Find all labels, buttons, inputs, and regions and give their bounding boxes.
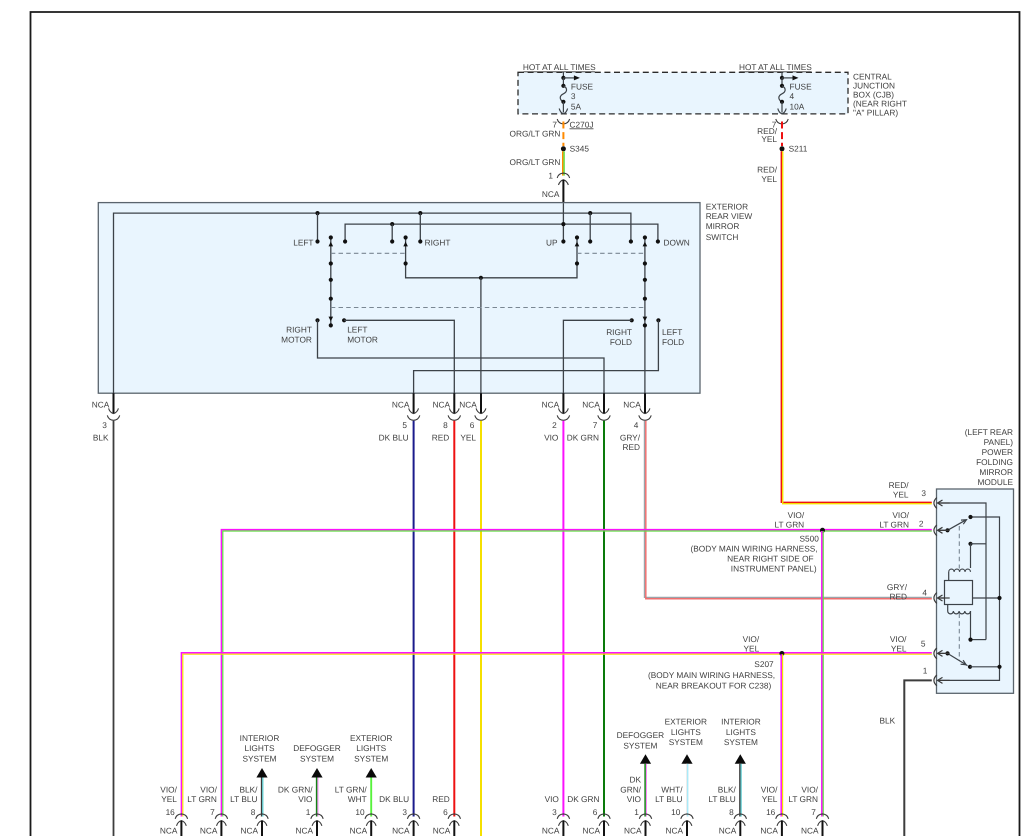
svg-text:VIO/: VIO/	[743, 634, 760, 644]
svg-text:NCA: NCA	[623, 399, 641, 409]
wire DK BLU	[413, 421, 415, 817]
module pin 3	[889, 480, 950, 509]
svg-text:VIO/: VIO/	[890, 634, 907, 644]
node RIGHT MOTOR contact + wire to pin 7	[315, 318, 604, 393]
svg-text:LT BLU: LT BLU	[708, 794, 735, 804]
svg-text:NCA: NCA	[433, 826, 451, 836]
svg-text:16: 16	[766, 807, 776, 817]
bottom connector pin 16 (VIO/ YEL)	[160, 784, 188, 836]
svg-text:FOLD: FOLD	[662, 337, 684, 347]
bottom connector pin 6 (DK GRN)	[567, 794, 610, 836]
svg-text:INTERIOR: INTERIOR	[240, 733, 280, 743]
switch connector pin 1	[548, 170, 569, 185]
svg-text:MOTOR: MOTOR	[347, 334, 378, 344]
svg-text:RIGHT: RIGHT	[286, 324, 312, 334]
svg-text:NCA: NCA	[295, 826, 313, 836]
wire BLK (module pin 1 to bottom)	[880, 680, 932, 836]
wire power feed from pin 1	[561, 203, 565, 243]
svg-text:5: 5	[402, 420, 407, 430]
svg-text:(LEFT REAR: (LEFT REAR	[965, 427, 1013, 437]
off-page INTERIOR LIGHTS SYSTEM (right) / wire BLK/LT BLU	[721, 717, 761, 817]
wire stub to LEFT contact	[315, 213, 319, 243]
svg-text:DK BLU: DK BLU	[379, 432, 409, 442]
wire module pin 3 to windings	[940, 503, 986, 640]
svg-text:DK BLU: DK BLU	[379, 794, 409, 804]
svg-text:LT BLU: LT BLU	[655, 794, 682, 804]
mechanical link UP-DOWN (dashed)	[577, 252, 645, 254]
svg-text:SYSTEM: SYSTEM	[623, 741, 657, 751]
svg-text:NCA: NCA	[459, 399, 477, 409]
wire GRY/RED (switch pin 4 to module pin 4)	[644, 421, 931, 599]
svg-text:FUSE: FUSE	[571, 82, 594, 92]
wire ORG/LT GRN (fuse 3 to S345)	[562, 122, 564, 147]
svg-text:SYSTEM: SYSTEM	[354, 753, 388, 763]
wire pin 5 stub	[938, 652, 948, 654]
svg-text:RIGHT: RIGHT	[606, 327, 632, 337]
svg-text:BLK/: BLK/	[718, 784, 737, 794]
bottom connector pin 10 (LT GRN/ WHT)	[335, 784, 378, 836]
motor coil lower	[948, 605, 986, 642]
svg-text:BLK: BLK	[93, 432, 109, 442]
svg-text:8: 8	[251, 807, 256, 817]
node LEFT MOTOR contact + wire to pin 8	[342, 318, 454, 393]
svg-text:(BODY MAIN WIRING HARNESS,: (BODY MAIN WIRING HARNESS,	[648, 670, 775, 680]
svg-text:VIO: VIO	[627, 794, 642, 804]
wire RED/YEL (S211 to module pin 3)	[781, 151, 932, 503]
wire NCA into switch	[542, 180, 564, 203]
switch pin 3 connector (BLK)	[92, 393, 120, 442]
svg-text:REAR VIEW: REAR VIEW	[706, 211, 753, 221]
svg-text:LT GRN: LT GRN	[775, 520, 805, 530]
switch fold (bottom)	[945, 651, 1001, 669]
svg-text:LIGHTS: LIGHTS	[671, 727, 701, 737]
wire pole output to pin 6	[480, 278, 482, 393]
svg-text:5: 5	[921, 639, 926, 649]
bottom connector pin 1 (DK GRN/ VIO)	[278, 784, 323, 836]
svg-text:MODULE: MODULE	[978, 477, 1014, 487]
svg-text:FOLD: FOLD	[610, 337, 632, 347]
off-page EXTERIOR LIGHTS SYSTEM (right) / wire WHT/LT BLU	[665, 717, 707, 817]
svg-text:C270J: C270J	[570, 119, 594, 129]
svg-text:1: 1	[548, 170, 553, 180]
svg-text:NCA: NCA	[542, 189, 560, 199]
wire DK GRN	[603, 421, 605, 817]
svg-text:RED: RED	[889, 592, 907, 602]
svg-text:HOT AT ALL TIMES: HOT AT ALL TIMES	[739, 62, 812, 72]
switch pole RIGHT (up-position pole)	[403, 235, 579, 280]
svg-text:GRY/: GRY/	[620, 432, 641, 442]
svg-text:7: 7	[811, 807, 816, 817]
mechanical link module (dashed)	[958, 526, 960, 661]
svg-text:2: 2	[919, 519, 924, 529]
svg-text:YEL: YEL	[744, 644, 760, 654]
svg-text:S345: S345	[570, 144, 590, 154]
svg-text:BLK: BLK	[880, 715, 896, 725]
svg-text:VIO: VIO	[298, 794, 313, 804]
svg-text:SYSTEM: SYSTEM	[724, 737, 758, 747]
svg-text:YEL: YEL	[460, 432, 476, 442]
svg-text:NCA: NCA	[542, 826, 560, 836]
wire stub to RIGHT contact	[418, 213, 422, 243]
svg-text:7: 7	[210, 807, 215, 817]
svg-text:YEL: YEL	[761, 174, 777, 184]
bottom connector pin 10 (WHT/ LT BLU)	[655, 784, 693, 836]
wire YEL	[480, 421, 482, 836]
svg-text:LT GRN: LT GRN	[187, 794, 217, 804]
svg-text:RIGHT: RIGHT	[425, 237, 451, 247]
svg-text:NCA: NCA	[760, 826, 778, 836]
svg-text:HOT AT ALL TIMES: HOT AT ALL TIMES	[523, 62, 596, 72]
svg-text:GRN/: GRN/	[620, 784, 641, 794]
exterior rear view mirror switch S1	[98, 201, 752, 393]
bottom connector pin 8 (BLK/ LT BLU)	[230, 784, 268, 836]
bottom connector pin 6 (RED)	[432, 794, 460, 836]
module pin 4	[887, 582, 950, 604]
svg-text:NCA: NCA	[582, 399, 600, 409]
svg-text:DK GRN/: DK GRN/	[278, 784, 313, 794]
module pin 2	[879, 510, 949, 536]
svg-text:WHT/: WHT/	[661, 784, 683, 794]
switch pin 2 connector (VIO)	[542, 393, 570, 442]
svg-text:LT GRN: LT GRN	[788, 794, 818, 804]
svg-text:(BODY MAIN WIRING HARNESS,: (BODY MAIN WIRING HARNESS,	[691, 544, 818, 554]
connector C270J pin 7	[552, 119, 593, 129]
svg-text:NCA: NCA	[160, 826, 178, 836]
wire stub bus to RIGHT-left contact	[390, 222, 394, 244]
svg-text:NCA: NCA	[719, 826, 737, 836]
svg-text:3: 3	[921, 488, 926, 498]
svg-text:LIGHTS: LIGHTS	[245, 743, 275, 753]
switch pin 7 connector (DK GRN)	[567, 393, 610, 442]
svg-text:10A: 10A	[790, 101, 805, 111]
svg-text:6: 6	[593, 807, 598, 817]
svg-text:SYSTEM: SYSTEM	[242, 753, 276, 763]
svg-text:RED/: RED/	[889, 480, 910, 490]
svg-text:DK GRN: DK GRN	[567, 794, 599, 804]
svg-text:SWITCH: SWITCH	[706, 232, 739, 242]
wire BLK (switch pin 3 to bottom)	[113, 421, 115, 836]
wire RED	[453, 421, 455, 817]
svg-text:NCA: NCA	[433, 399, 451, 409]
switch pin 4 connector (GRY/ RED)	[620, 393, 651, 452]
wire stub to UP-right contact	[588, 213, 592, 243]
svg-text:ORG/LT GRN: ORG/LT GRN	[510, 128, 561, 138]
svg-text:NCA: NCA	[392, 826, 410, 836]
svg-text:LT GRN/: LT GRN/	[335, 784, 368, 794]
module pin 1	[923, 666, 950, 686]
motor M1 body	[945, 581, 973, 605]
svg-text:MIRROR: MIRROR	[706, 221, 740, 231]
svg-text:VIO/: VIO/	[200, 784, 217, 794]
svg-text:S207: S207	[754, 659, 774, 669]
svg-text:NCA: NCA	[200, 826, 218, 836]
svg-text:YEL: YEL	[893, 489, 909, 499]
svg-text:LIGHTS: LIGHTS	[726, 727, 756, 737]
label RIGHT MOTOR	[281, 324, 312, 344]
svg-text:EXTERIOR: EXTERIOR	[665, 717, 707, 727]
off-page DEFOGGER SYSTEM (left) / wire DK GRN/VIO	[293, 743, 340, 816]
off-page DEFOGGER SYSTEM (right) / wire DK GRN/VIO	[617, 730, 664, 816]
svg-text:3: 3	[402, 807, 407, 817]
mechanical link lower (dashed)	[331, 307, 645, 309]
svg-text:8: 8	[729, 807, 734, 817]
wire VIO/LT GRN (bottom pin 7 to module pin 2)	[221, 530, 931, 817]
svg-text:LEFT: LEFT	[293, 237, 313, 247]
svg-text:LT BLU: LT BLU	[230, 794, 257, 804]
switch pole LEFT/RIGHT rocker (left)	[330, 238, 332, 326]
bottom connector pin 16 (VIO/ YEL)	[760, 784, 788, 836]
svg-text:VIO/: VIO/	[801, 784, 818, 794]
node RIGHT FOLD contact + wire to pin 2	[563, 318, 633, 393]
svg-text:NEAR RIGHT SIDE OF: NEAR RIGHT SIDE OF	[727, 553, 814, 563]
svg-text:"A" PILLAR): "A" PILLAR)	[853, 108, 898, 118]
wire VIO/YEL (S207 to bottom pin 16 right)	[781, 654, 782, 816]
svg-text:4: 4	[922, 587, 927, 597]
svg-text:3: 3	[571, 91, 576, 101]
svg-text:2: 2	[552, 420, 557, 430]
svg-text:PANEL): PANEL)	[984, 437, 1014, 447]
wire VIO/YEL (bottom pin 16 to module pin 5)	[181, 653, 931, 817]
svg-text:DEFOGGER: DEFOGGER	[617, 730, 664, 740]
node HOT AT ALL TIMES (right)	[739, 62, 812, 72]
bottom connector pin 3 (VIO)	[542, 794, 570, 836]
svg-text:LIGHTS: LIGHTS	[356, 743, 386, 753]
svg-text:VIO: VIO	[545, 794, 560, 804]
node DOWN-left contact	[629, 239, 633, 243]
svg-text:DK: DK	[629, 775, 641, 785]
svg-text:POWER: POWER	[982, 447, 1013, 457]
svg-text:VIO/: VIO/	[892, 510, 909, 520]
svg-text:NCA: NCA	[624, 826, 642, 836]
wire VIO/LT GRN (S500 to bottom pin 7 right)	[822, 531, 823, 817]
switch fold (top)	[945, 515, 972, 533]
svg-text:RED: RED	[432, 794, 450, 804]
node LEFT FOLD contact + wire to pin 5	[414, 318, 661, 393]
fuse 4 10A	[778, 72, 812, 114]
svg-text:WHT: WHT	[348, 794, 367, 804]
bottom connector pin 1 (DK GRN/ VIO)	[620, 775, 651, 836]
svg-text:YEL: YEL	[161, 794, 177, 804]
svg-text:DOWN: DOWN	[664, 237, 690, 247]
label RED/YEL	[757, 164, 778, 184]
svg-text:YEL: YEL	[762, 794, 778, 804]
svg-text:16: 16	[166, 807, 176, 817]
svg-text:7: 7	[593, 420, 598, 430]
svg-text:VIO: VIO	[544, 432, 559, 442]
wire ground bus (switch top wire, to pin 3)	[114, 213, 631, 393]
central junction box (CJB)	[518, 72, 907, 118]
wire ORG/LT GRN (S345 to switch pin 1)	[563, 151, 564, 175]
svg-text:NCA: NCA	[350, 826, 368, 836]
svg-text:3: 3	[552, 807, 557, 817]
off-page INTERIOR LIGHTS SYSTEM (left) / wire BLK/LT BLU	[240, 733, 280, 817]
wire pin 4 through motor	[940, 597, 1000, 599]
fuse 3 5A	[559, 72, 593, 114]
svg-text:S500: S500	[800, 534, 820, 544]
svg-text:4: 4	[634, 420, 639, 430]
motor winding upper terminal	[968, 542, 986, 568]
svg-text:EXTERIOR: EXTERIOR	[706, 201, 748, 211]
splice S207	[648, 634, 784, 690]
label RIGHT FOLD	[606, 327, 632, 347]
connector pin 7 (fuse 4)	[772, 119, 788, 129]
svg-text:FUSE: FUSE	[790, 82, 813, 92]
svg-text:YEL: YEL	[891, 644, 907, 654]
svg-text:8: 8	[443, 420, 448, 430]
svg-text:LEFT: LEFT	[347, 324, 367, 334]
svg-text:1: 1	[923, 666, 928, 676]
svg-text:RED/: RED/	[757, 164, 778, 174]
svg-text:RED: RED	[622, 442, 640, 452]
svg-text:5A: 5A	[571, 101, 582, 111]
bottom connector pin 7 (VIO/ LT GRN)	[788, 784, 828, 836]
power folding mirror module	[937, 427, 1014, 693]
bottom connector pin 8 (BLK/ LT BLU)	[708, 784, 746, 836]
label LEFT FOLD	[662, 327, 684, 347]
splice S345	[561, 144, 589, 154]
svg-text:LT GRN: LT GRN	[879, 519, 909, 529]
svg-text:1: 1	[634, 807, 639, 817]
svg-text:RED: RED	[432, 432, 450, 442]
wire pin 2 stub	[938, 529, 948, 531]
svg-text:FOLDING: FOLDING	[976, 457, 1013, 467]
off-page EXTERIOR LIGHTS SYSTEM (left) / wire LT GRN/WHT	[350, 733, 392, 817]
bottom connector pin 3 (DK BLU)	[379, 794, 420, 836]
svg-text:3: 3	[102, 420, 107, 430]
wire VIO	[562, 421, 564, 817]
svg-text:BLK/: BLK/	[240, 784, 259, 794]
svg-text:NCA: NCA	[240, 826, 258, 836]
wire power bus	[345, 224, 658, 241]
mechanical link LEFT-RIGHT (dashed)	[331, 252, 406, 254]
svg-text:INTERIOR: INTERIOR	[721, 717, 761, 727]
svg-text:NCA: NCA	[92, 399, 110, 409]
svg-text:MOTOR: MOTOR	[281, 334, 312, 344]
svg-text:10: 10	[671, 807, 681, 817]
svg-text:4: 4	[790, 91, 795, 101]
svg-text:ORG/LT GRN: ORG/LT GRN	[510, 157, 561, 167]
svg-text:DK GRN: DK GRN	[567, 432, 599, 442]
svg-text:6: 6	[443, 807, 448, 817]
label LEFT MOTOR	[347, 324, 378, 344]
svg-text:INSTRUMENT PANEL): INSTRUMENT PANEL)	[731, 563, 817, 573]
svg-text:NCA: NCA	[542, 399, 560, 409]
svg-text:6: 6	[470, 420, 475, 430]
wire RED/YEL (fuse 4 to S211)	[781, 122, 783, 147]
splice S500	[691, 510, 825, 573]
switch pin 8 connector (RED)	[432, 393, 461, 442]
svg-text:NEAR BREAKOUT FOR C238): NEAR BREAKOUT FOR C238)	[656, 680, 772, 690]
wire module right bus (pin 1)	[940, 517, 1000, 680]
bottom connector pin 7 (VIO/ LT GRN)	[187, 784, 227, 836]
svg-text:EXTERIOR: EXTERIOR	[350, 733, 392, 743]
node HOT AT ALL TIMES (left)	[523, 62, 596, 72]
junction dots on top wire	[315, 211, 592, 215]
label RED/YEL	[757, 126, 778, 144]
svg-text:S211: S211	[789, 144, 808, 154]
svg-text:SYSTEM: SYSTEM	[300, 753, 334, 763]
svg-text:VIO/: VIO/	[788, 510, 805, 520]
svg-text:SYSTEM: SYSTEM	[669, 737, 703, 747]
svg-text:DEFOGGER: DEFOGGER	[293, 743, 340, 753]
switch pole UP/DOWN rocker (down) + wire to pin 4	[644, 325, 646, 393]
svg-text:LEFT: LEFT	[662, 327, 682, 337]
svg-text:UP: UP	[546, 237, 558, 247]
svg-text:1: 1	[306, 807, 311, 817]
svg-text:VIO/: VIO/	[160, 784, 177, 794]
svg-text:VIO/: VIO/	[761, 784, 778, 794]
svg-text:NCA: NCA	[665, 826, 683, 836]
svg-text:MIRROR: MIRROR	[979, 467, 1013, 477]
switch pin 6 connector (YEL)	[459, 393, 487, 442]
motor coil upper	[949, 569, 971, 572]
svg-text:NCA: NCA	[801, 826, 819, 836]
svg-text:10: 10	[355, 807, 365, 817]
svg-text:GRY/: GRY/	[887, 582, 908, 592]
svg-text:NCA: NCA	[582, 826, 600, 836]
svg-text:NCA: NCA	[392, 399, 410, 409]
switch pin 5 connector (DK BLU)	[379, 393, 420, 442]
svg-text:YEL: YEL	[761, 134, 777, 144]
module pin 5	[890, 634, 950, 659]
splice S211	[780, 144, 808, 154]
